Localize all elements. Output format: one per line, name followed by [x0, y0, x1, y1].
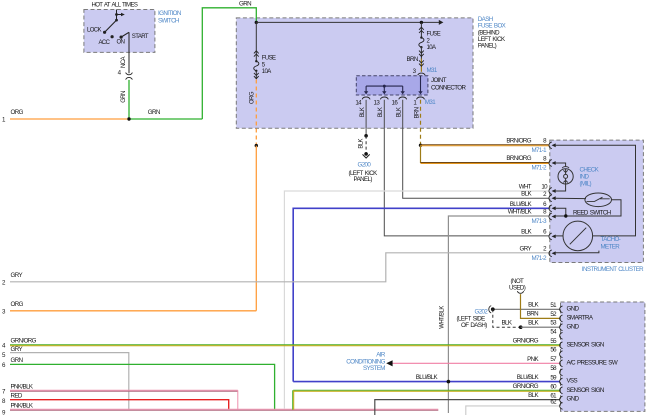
not used connector arc: [517, 291, 523, 293]
connector 4 symbol: [126, 73, 133, 75]
check indicator lamp: [558, 167, 573, 184]
svg-text:BLK: BLK: [528, 392, 539, 399]
node junction BRN: [419, 144, 422, 147]
instrument cluster box: [550, 140, 644, 262]
pin 3 connector arc: [418, 73, 425, 75]
node splice 53: [519, 325, 523, 329]
svg-text:G202: G202: [475, 308, 489, 315]
wire 4 GRN/ORG to ECM 55: [10, 345, 560, 346]
svg-text:FUSE BOX: FUSE BOX: [478, 23, 506, 30]
svg-text:GRN: GRN: [11, 357, 23, 364]
wire BLK to ECM 61 GND: [375, 400, 560, 415]
wire GRY cluster pin 2: [10, 253, 549, 282]
node G202: [491, 307, 495, 311]
wire BLK pin13 down to cluster BLK 6: [384, 100, 549, 236]
svg-text:10A: 10A: [427, 45, 436, 51]
wire WHT cluster pin 10: [284, 191, 548, 409]
svg-text:PANEL): PANEL): [478, 43, 497, 50]
svg-text:GRN: GRN: [148, 109, 160, 116]
wire BLU/BLK to ECM 59 VSS: [293, 381, 559, 383]
svg-text:INSTRUMENT CLUSTER: INSTRUMENT CLUSTER: [582, 266, 644, 273]
svg-text:10A: 10A: [262, 69, 271, 75]
svg-text:BLU/BLK: BLU/BLK: [510, 201, 533, 208]
svg-text:ACC: ACC: [99, 40, 111, 46]
instrument cluster pin arcs and arrows: [549, 142, 552, 257]
svg-text:PANEL): PANEL): [354, 176, 373, 183]
wire BRN ECM 52 to not used: [521, 294, 560, 318]
wire PNK to A/C pressure switch: [392, 362, 559, 364]
node splice on ORG: [255, 144, 258, 147]
node dot above ground: [364, 134, 368, 138]
svg-text:PNK/BLK: PNK/BLK: [11, 403, 34, 410]
wire WHT/BLK cluster pin 8 down: [448, 216, 548, 413]
svg-text:GRY: GRY: [11, 346, 23, 353]
svg-text:SENSOR SIGN: SENSOR SIGN: [567, 342, 604, 349]
svg-text:SMARTRA: SMARTRA: [567, 315, 594, 322]
svg-text:M71-2: M71-2: [531, 165, 547, 172]
wire GRN riser: [202, 8, 256, 119]
node junction WHT/BLK BLU/BLK: [447, 380, 451, 384]
wire pin 6 BLK to tachometer: [555, 235, 563, 237]
wire BLK ECM 53: [521, 326, 560, 328]
svg-text:BLK: BLK: [521, 228, 532, 235]
cluster internal wiring M71-1 to tachometer: [555, 145, 636, 236]
svg-text:BLK: BLK: [502, 319, 513, 326]
svg-text:ORG: ORG: [11, 109, 24, 116]
svg-text:VSS: VSS: [567, 378, 578, 385]
ground G200: [364, 152, 368, 156]
pin arcs below joint connector: [362, 97, 370, 99]
svg-text:USED): USED): [509, 285, 526, 292]
dash fuse box: [236, 18, 473, 128]
wire BLK dashed G202 jumper: [493, 309, 521, 327]
svg-text:CHECK: CHECK: [580, 167, 600, 174]
svg-text:SWITCH: SWITCH: [158, 18, 179, 25]
svg-text:M71-2: M71-2: [531, 255, 547, 262]
svg-text:BLK: BLK: [397, 107, 403, 117]
svg-text:NCA: NCA: [121, 56, 127, 67]
svg-text:GND: GND: [567, 396, 580, 403]
svg-text:BLK: BLK: [378, 107, 384, 117]
svg-text:GRY: GRY: [11, 272, 23, 279]
joint connector M31 box: [356, 76, 428, 95]
svg-text:LOCK: LOCK: [87, 28, 102, 34]
wire BRN/ORG to M71-1: [421, 145, 549, 146]
svg-text:GRY: GRY: [520, 245, 532, 252]
wire fusebox top bus: [256, 21, 439, 23]
svg-text:SENSOR SIGN: SENSOR SIGN: [567, 387, 604, 394]
svg-text:START: START: [132, 34, 149, 40]
svg-text:ON: ON: [117, 40, 125, 46]
wire BLK pin14 down: [365, 100, 367, 136]
wire BLU/BLK cluster pin 6: [293, 208, 548, 381]
svg-text:ORG: ORG: [249, 91, 255, 104]
wire ignition switch to connector 4: [128, 52, 130, 73]
svg-text:IND: IND: [580, 174, 590, 181]
wire ORG solid down: [255, 146, 257, 311]
svg-text:WHT: WHT: [519, 184, 532, 191]
svg-text:OF DASH): OF DASH): [461, 322, 487, 329]
wire GRN/ORG to ECM 60: [293, 390, 560, 409]
svg-text:BRN: BRN: [414, 107, 420, 118]
svg-text:(MIL): (MIL): [580, 181, 592, 188]
svg-text:HOT AT ALL TIMES: HOT AT ALL TIMES: [92, 2, 138, 8]
joint connector internals: [364, 76, 423, 95]
svg-text:GND: GND: [567, 306, 580, 313]
svg-text:BLU/BLK: BLU/BLK: [517, 374, 540, 381]
wire BLK dashed to ground: [365, 136, 367, 154]
node junction reed bus: [564, 214, 567, 217]
svg-text:PNK/BLK: PNK/BLK: [11, 384, 34, 391]
wire 1 GRN: [129, 118, 202, 120]
wire reed switch loop to WHT/BLK pin 8: [555, 200, 621, 216]
wire GRN ignition down: [128, 80, 130, 119]
svg-text:BRN/ORG: BRN/ORG: [506, 155, 531, 162]
wire 9 PNK/BLK: [10, 409, 438, 410]
svg-text:RED: RED: [11, 393, 23, 400]
svg-text:GRN: GRN: [121, 91, 127, 103]
wire pin 2 GRY to tachometer bottom: [555, 251, 599, 253]
node junction wire1: [127, 117, 130, 120]
fuse F5 10A: [254, 22, 259, 79]
svg-text:GRN: GRN: [239, 1, 251, 8]
svg-text:BRN: BRN: [407, 56, 418, 63]
svg-text:M31: M31: [425, 99, 436, 106]
ignition switch box: [84, 10, 155, 53]
svg-text:PNK: PNK: [527, 356, 539, 363]
wire 1 ORG: [10, 118, 129, 120]
svg-text:BLK: BLK: [528, 319, 539, 326]
svg-text:A/C PRESSURE SW: A/C PRESSURE SW: [567, 360, 618, 367]
wire lamp to pin 10: [555, 184, 566, 191]
svg-text:BLK: BLK: [521, 191, 532, 198]
svg-text:TACHO-: TACHO-: [601, 236, 621, 243]
svg-text:BRN/ORG: BRN/ORG: [506, 137, 531, 144]
ECM pin arcs: [560, 306, 563, 409]
svg-text:GRN/ORG: GRN/ORG: [11, 337, 37, 344]
svg-text:FUSE: FUSE: [427, 32, 441, 38]
svg-text:BLK: BLK: [528, 302, 539, 309]
reed switch: [585, 193, 612, 207]
node junction fusebox left: [255, 21, 258, 24]
wire 5 GRY: [10, 353, 129, 410]
wire GRY to ECM 62: [466, 406, 560, 415]
svg-text:GRN/ORG: GRN/ORG: [513, 338, 539, 345]
svg-text:JOINT: JOINT: [431, 77, 447, 84]
svg-text:GND: GND: [567, 324, 580, 331]
wire 3 ORG: [10, 310, 256, 312]
svg-text:BLU/BLK: BLU/BLK: [416, 374, 439, 381]
tachometer: [563, 221, 593, 251]
wire BRN dashed pin1 down: [420, 100, 422, 146]
svg-text:GRN/ORG: GRN/ORG: [513, 383, 539, 390]
wire BRN/ORG to M71-2: [421, 163, 549, 164]
svg-text:G200: G200: [358, 162, 372, 169]
svg-text:M31: M31: [427, 67, 438, 74]
svg-text:SYSTEM: SYSTEM: [363, 365, 385, 372]
svg-text:M71-1: M71-1: [531, 147, 547, 154]
svg-text:BRN: BRN: [527, 311, 538, 318]
arrow to air conditioning system: [386, 360, 392, 366]
svg-text:CONNECTOR: CONNECTOR: [431, 85, 466, 92]
svg-text:IGNITION: IGNITION: [158, 10, 181, 17]
wire BLK pin16 down to cluster BLK 2: [403, 100, 549, 198]
svg-text:REED SWITCH: REED SWITCH: [573, 210, 611, 217]
wire BLK ECM 51 to G202: [493, 308, 560, 310]
node junction above fuse 2: [420, 21, 423, 24]
svg-text:FUSE: FUSE: [262, 56, 276, 62]
ECM box: [561, 302, 645, 411]
svg-text:ORG: ORG: [11, 301, 24, 308]
wire pin 2 BLK to reed switch: [555, 197, 586, 199]
fuse F2 10A: [419, 22, 424, 58]
svg-text:M71-3: M71-3: [531, 218, 547, 225]
cluster internal wiring M71-2 to check lamp: [555, 163, 566, 167]
wire 8 RED: [10, 400, 229, 410]
svg-text:METER: METER: [601, 244, 621, 251]
wire 6 GRN: [10, 364, 275, 409]
svg-text:BLK: BLK: [360, 107, 366, 117]
wire BRN solid down: [420, 145, 422, 163]
wire BLU/BLK pin 6 internal: [555, 208, 566, 216]
ignition switch internals: [103, 10, 129, 53]
wire ORG dashed below fuse 5: [255, 80, 257, 146]
svg-text:WHT/BLK: WHT/BLK: [440, 306, 446, 329]
svg-text:BLK: BLK: [358, 138, 364, 148]
svg-text:WHT/BLK: WHT/BLK: [508, 209, 533, 216]
wire 7 PNK/BLK: [10, 390, 238, 409]
wire BRN fuse2 to joint connector pin 3: [420, 59, 422, 72]
